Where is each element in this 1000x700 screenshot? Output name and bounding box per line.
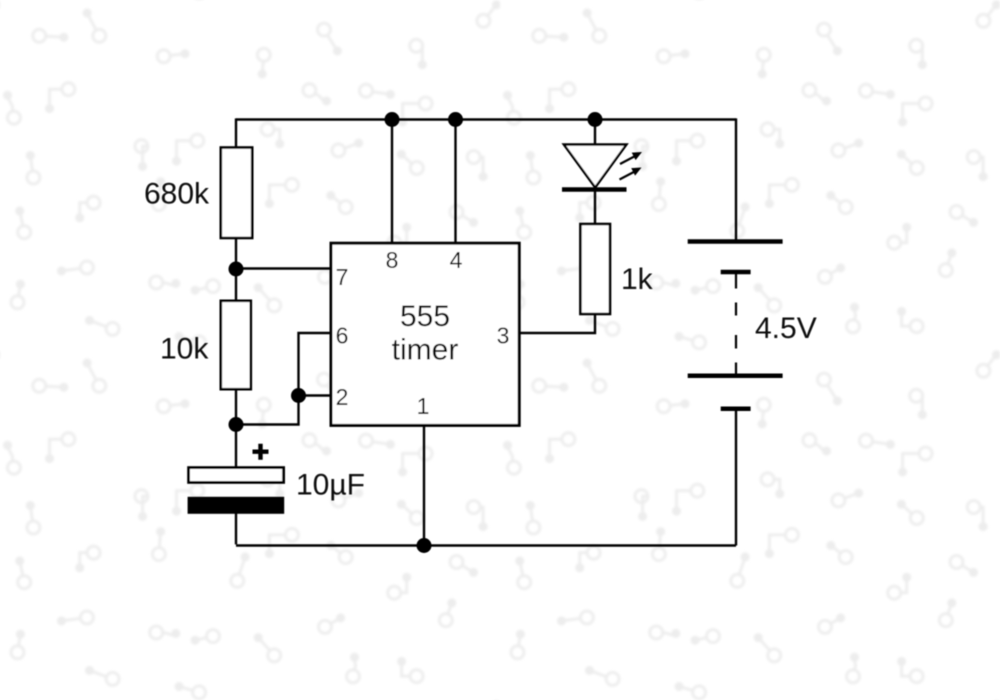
wire top rail: [236, 118, 736, 120]
resistor 680k body: [221, 148, 252, 239]
LED D1 triangle: [564, 145, 627, 188]
svg-text:555: 555: [400, 300, 450, 333]
battery plate short top: [721, 270, 751, 275]
svg-text:8: 8: [386, 247, 399, 273]
battery plate short bottom: [721, 406, 751, 411]
wire top rail to battery +: [735, 118, 737, 241]
wire battery - to bottom rail: [735, 409, 737, 546]
junction dot LED/top rail: [588, 112, 603, 127]
wire 10k bottom to node B: [235, 389, 237, 425]
junction dot pin1/bottom rail: [417, 538, 432, 553]
battery dashed link: [735, 303, 737, 349]
IC U1 555 timer body: [331, 243, 519, 425]
resistor 10k body: [221, 301, 251, 389]
svg-text:680k: 680k: [144, 178, 210, 211]
svg-text:1: 1: [417, 393, 430, 419]
junction node pin2/pin6: [291, 388, 306, 403]
resistor 1k body: [580, 224, 610, 314]
svg-text:2: 2: [336, 384, 349, 410]
svg-text:10µF: 10µF: [296, 469, 365, 502]
wire pin 3 to 1k: [519, 314, 595, 333]
wire node A to pin 7: [236, 267, 331, 269]
svg-text:7: 7: [336, 264, 349, 290]
capacitor C1 polarity plus: [253, 444, 269, 460]
wire bottom rail: [236, 544, 736, 546]
wire 680k bottom to 10k top through node A: [235, 238, 237, 301]
wire pin 2 to node B: [236, 396, 331, 425]
junction node B: [229, 417, 244, 432]
capacitor C1 top plate: [189, 468, 284, 483]
junction dot pin8/top rail: [385, 112, 400, 127]
battery BT1 plate long top: [688, 239, 783, 244]
svg-text:6: 6: [336, 323, 349, 349]
LED cathode bar: [562, 187, 627, 192]
svg-text:timer: timer: [392, 334, 459, 367]
wire capacitor to bottom rail: [235, 514, 237, 545]
wire pin 6 jog: [299, 333, 332, 396]
battery plate long bottom: [688, 373, 783, 378]
svg-text:1k: 1k: [621, 263, 654, 296]
svg-text:3: 3: [497, 323, 510, 349]
junction dot pin4/top rail: [448, 112, 463, 127]
svg-text:10k: 10k: [160, 333, 209, 366]
svg-text:4: 4: [450, 247, 463, 273]
wire pin 8 to top rail: [391, 120, 393, 244]
wire left rail to 680k: [235, 118, 237, 147]
LED light arrow 1: [620, 152, 642, 164]
wire top rail to LED anode: [594, 120, 596, 146]
junction node A: [229, 262, 244, 277]
capacitor C1 bottom plate: [188, 497, 285, 514]
wire node B to capacitor: [235, 425, 237, 469]
LED light arrow 2: [620, 168, 642, 180]
wire pin 1 to bottom rail: [423, 426, 425, 546]
wire pin 4 to top rail: [454, 120, 456, 244]
battery stub below short plate: [735, 274, 737, 289]
svg-text:4.5V: 4.5V: [755, 312, 817, 345]
wire LED cathode to 1k: [594, 188, 596, 224]
battery stub above lower cell: [735, 363, 737, 376]
